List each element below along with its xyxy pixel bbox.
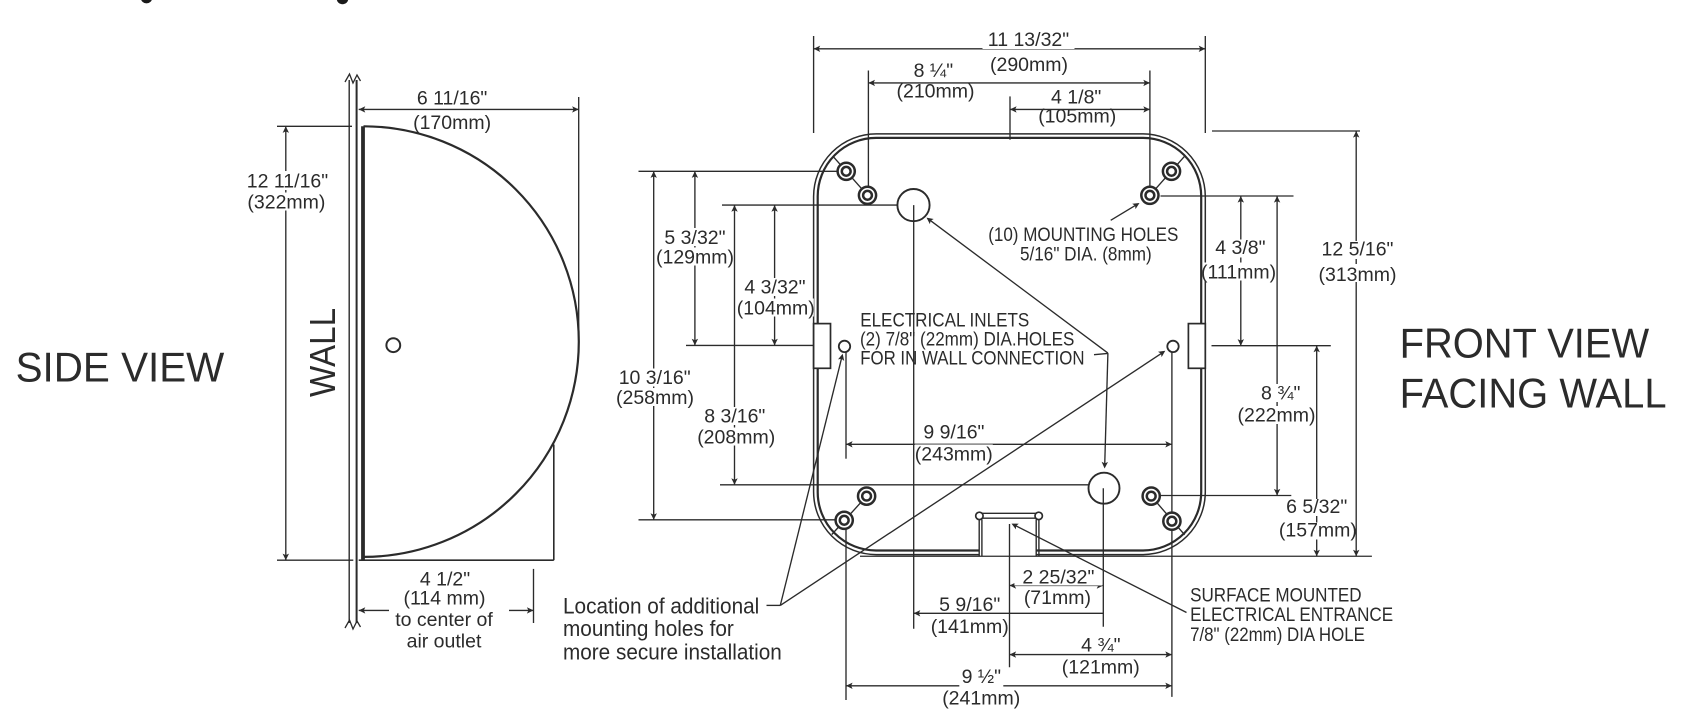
vertical ext plate right <box>1204 36 1206 133</box>
surface-mount notch <box>979 512 1038 514</box>
ref line through bottom inlet circle <box>720 484 1089 486</box>
vertical ext centerline top <box>1009 96 1011 139</box>
svg-text:12 11/16": 12 11/16" <box>247 171 328 193</box>
electrical inlet hole, top <box>897 189 929 221</box>
side view: air outlet center circle <box>386 338 400 352</box>
svg-text:Location of additional: Location of additional <box>563 593 759 618</box>
svg-text:4 ¾": 4 ¾" <box>1081 635 1121 657</box>
leader electrical inlets (tick + diagonal + down line) <box>1094 353 1108 354</box>
right side tab <box>1188 324 1205 369</box>
vertical ext plate left <box>813 36 815 133</box>
front view: plate outer outline <box>814 134 1206 555</box>
svg-text:(141mm): (141mm) <box>931 616 1009 638</box>
svg-text:ELECTRICAL ENTRANCE: ELECTRICAL ENTRANCE <box>1190 605 1393 626</box>
side view: body flat mounting face <box>361 126 365 560</box>
label 4 3/32 (104mm) <box>740 278 810 296</box>
svg-text:(157mm): (157mm) <box>1279 520 1357 542</box>
small in-wall inlet hole left <box>839 341 850 352</box>
bottom-left mounting hole pair <box>832 496 867 534</box>
label 4 3/8 (111mm) <box>1209 240 1271 258</box>
dim 8 3/16 (208mm) <box>734 205 736 485</box>
cropped title descender 2 <box>337 0 349 4</box>
svg-text:FRONT VIEW: FRONT VIEW <box>1400 320 1650 367</box>
left side tab <box>814 324 831 369</box>
label 6 5/32 (157mm) <box>1282 499 1352 516</box>
svg-text:(258mm): (258mm) <box>616 387 694 409</box>
front view: plate inner outline <box>818 138 1201 551</box>
notch corner circles <box>976 512 983 519</box>
leader surface mounted entrance <box>1014 525 1186 613</box>
ref line through top inlet circle <box>722 204 898 206</box>
svg-text:(313mm): (313mm) <box>1318 264 1396 286</box>
top-left mounting hole pair <box>833 157 867 196</box>
dim 9 9/16 (243mm) <box>846 443 1172 445</box>
svg-text:9 ½": 9 ½" <box>962 666 1002 688</box>
svg-text:(290mm): (290mm) <box>990 54 1068 76</box>
svg-text:(208mm): (208mm) <box>697 426 775 448</box>
svg-text:air outlet: air outlet <box>407 631 482 653</box>
svg-text:7/8" (22mm) DIA HOLE: 7/8" (22mm) DIA HOLE <box>1190 625 1365 646</box>
label 5 3/32 (129mm) <box>660 228 730 246</box>
svg-text:6 5/32": 6 5/32" <box>1286 496 1347 518</box>
leader location-additional-holes (tick + two lines) <box>767 604 781 606</box>
svg-text:(121mm): (121mm) <box>1062 656 1140 678</box>
svg-text:(111mm): (111mm) <box>1201 261 1276 283</box>
svg-text:(241mm): (241mm) <box>942 688 1020 710</box>
top-right mounting hole pair <box>1150 157 1184 196</box>
svg-text:(71mm): (71mm) <box>1024 587 1091 609</box>
svg-text:FACING WALL: FACING WALL <box>1400 370 1667 417</box>
vertical ext centerline bottom <box>1009 524 1011 667</box>
dim 4 1/8 (105mm) <box>1010 108 1150 110</box>
side view: air outlet box <box>553 445 555 561</box>
bottom-right mounting hole pair <box>1151 496 1184 535</box>
dimension 4 1/2 (114mm) to center of air outlet <box>533 569 535 623</box>
vertical ext from bottom inlet circle <box>1102 488 1104 627</box>
vertical ext right small hole <box>1171 353 1173 697</box>
label 9 9/16 (243mm) <box>921 423 987 440</box>
svg-text:WALL: WALL <box>302 308 343 397</box>
svg-text:8 ¾": 8 ¾" <box>1261 382 1301 404</box>
dimension 12 11/16 (322mm) <box>277 125 352 127</box>
ref line through bottom-left mounting hole <box>639 519 836 521</box>
dim 5 9/16 (141mm) <box>914 612 1104 614</box>
svg-text:more secure installation: more secure installation <box>563 639 782 664</box>
svg-text:SIDE VIEW: SIDE VIEW <box>16 343 225 390</box>
ref line right tab <box>1212 345 1331 347</box>
dimension 6 11/16 (170mm) <box>578 97 580 333</box>
ref line right top corner <box>1212 130 1360 132</box>
svg-text:2 25/32": 2 25/32" <box>1022 566 1094 588</box>
side view: dryer body semicircle <box>364 126 579 557</box>
side view: wall double line with break symbols <box>348 80 350 623</box>
vertical ext top-right hole <box>1149 71 1151 196</box>
label 9 1/2 (241mm) <box>959 669 1003 687</box>
svg-text:(10) MOUNTING HOLES: (10) MOUNTING HOLES <box>988 224 1178 246</box>
dim 4 3/8 (111mm) <box>1240 196 1242 346</box>
label 10 3/16 (258mm) <box>616 369 694 387</box>
electrical inlet hole, bottom <box>1089 473 1120 504</box>
vertical ext top-left hole <box>867 71 869 196</box>
dim 4 3/32 (104mm) <box>774 205 776 345</box>
svg-text:(322mm): (322mm) <box>247 191 325 213</box>
dim 6 5/32 (157mm) <box>1316 346 1318 557</box>
label 8 3/16 (208mm) <box>700 407 770 425</box>
svg-text:6 11/16": 6 11/16" <box>417 88 488 110</box>
svg-text:(170mm): (170mm) <box>413 112 491 134</box>
svg-text:(114 mm): (114 mm) <box>404 587 486 609</box>
svg-text:8 ¼": 8 ¼" <box>914 60 954 82</box>
svg-text:5/16" DIA. (8mm): 5/16" DIA. (8mm) <box>1020 244 1152 266</box>
label 8 3/4 (222mm) <box>1257 384 1305 402</box>
svg-text:11 13/32": 11 13/32" <box>988 29 1069 51</box>
svg-text:FOR IN WALL CONNECTION: FOR IN WALL CONNECTION <box>860 348 1084 370</box>
svg-text:(104mm): (104mm) <box>737 298 815 320</box>
ref line through bottom-right mounting hole <box>1161 495 1292 497</box>
label 12 5/16 (313mm) <box>1319 241 1397 259</box>
ref line left tabs <box>686 344 814 346</box>
svg-text:5 3/32": 5 3/32" <box>664 227 725 249</box>
svg-text:(243mm): (243mm) <box>915 444 993 466</box>
svg-text:(105mm): (105mm) <box>1038 106 1116 128</box>
svg-text:(222mm): (222mm) <box>1237 405 1315 427</box>
dim 5 3/32 (129mm) <box>694 171 696 345</box>
svg-text:9 9/16": 9 9/16" <box>923 421 984 443</box>
label 11 13/32 (290mm) <box>983 31 1075 49</box>
cropped title descender 1 <box>141 0 152 3</box>
svg-text:4 3/32": 4 3/32" <box>744 277 805 299</box>
dim 11 13/32 (290mm) <box>814 48 1206 50</box>
ref line through top-right mounting hole <box>1161 195 1294 197</box>
leader to top-right mounting hole <box>1111 205 1137 221</box>
svg-text:5 9/16": 5 9/16" <box>939 594 1000 616</box>
svg-text:12 5/16": 12 5/16" <box>1322 239 1394 261</box>
dim 9 1/2 (241mm) <box>846 685 1172 687</box>
dim 8 1/4 (210mm) <box>868 82 1150 84</box>
svg-text:4 3/8": 4 3/8" <box>1215 237 1265 259</box>
small in-wall inlet hole right <box>1167 341 1178 352</box>
bottom extension line (to 12 5/16) <box>860 555 1372 557</box>
svg-text:to center of: to center of <box>395 609 493 631</box>
svg-text:mounting holes for: mounting holes for <box>563 616 734 641</box>
dim 10 3/16 (258mm) <box>653 171 655 520</box>
dim 8 3/4 (222mm) <box>1276 196 1278 496</box>
svg-text:(210mm): (210mm) <box>896 80 974 102</box>
label 12 11/16 (322mm) <box>247 171 329 190</box>
notch whiteout over bottom edge <box>979 547 1037 558</box>
svg-text:(129mm): (129mm) <box>656 247 734 269</box>
label 2 25/32 (71mm) <box>1014 569 1102 586</box>
dim 12 5/16 (313mm) <box>1355 131 1357 556</box>
dim 2 25/32 (71mm) <box>1010 585 1104 587</box>
vertical ext from top inlet circle <box>913 205 915 629</box>
vertical ext left small hole (gap at washer) <box>845 353 847 459</box>
dim 4 3/4 (121mm) <box>1010 654 1172 656</box>
svg-text:8 3/16": 8 3/16" <box>704 406 765 428</box>
svg-text:SURFACE MOUNTED: SURFACE MOUNTED <box>1190 585 1362 606</box>
ref line through top-left mounting hole <box>639 170 838 172</box>
